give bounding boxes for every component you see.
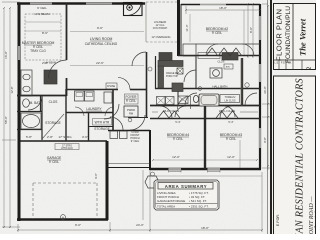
svg-text:LVG BEAM: LVG BEAM xyxy=(34,12,50,16)
svg-text:STORAGE: STORAGE xyxy=(94,127,110,131)
svg-text:12'-0": 12'-0" xyxy=(227,155,235,159)
svg-text:Louisiana: Louisiana xyxy=(315,201,317,229)
svg-text:18'-0": 18'-0" xyxy=(201,226,209,230)
svg-text:8'-8": 8'-8" xyxy=(263,137,267,143)
svg-text:• 2351 SQ. FT.: • 2351 SQ. FT. xyxy=(189,205,209,209)
svg-text:12'-8": 12'-8" xyxy=(10,86,14,93)
svg-text:LIN CLOS: LIN CLOS xyxy=(225,100,236,103)
svg-text:58'-0": 58'-0" xyxy=(4,116,8,124)
svg-text:FLOOR PLAN: FLOOR PLAN xyxy=(275,9,284,61)
svg-text:BI/LI: BI/LI xyxy=(226,67,231,69)
svg-text:17' STRG: 17' STRG xyxy=(58,135,72,139)
svg-text:16'-0": 16'-0" xyxy=(4,51,8,59)
svg-text:HALL BATH: HALL BATH xyxy=(213,85,228,89)
svg-text:2'-8": 2'-8" xyxy=(47,135,53,139)
svg-text:TOTAL AREA: TOTAL AREA xyxy=(157,205,175,209)
svg-text:E FOR:: E FOR: xyxy=(276,214,280,226)
svg-text:9' CEIL: 9' CEIL xyxy=(131,139,140,143)
svg-text:COV PORCH: COV PORCH xyxy=(153,27,168,30)
svg-text:11'-6": 11'-6" xyxy=(185,24,189,31)
svg-text:12'-0": 12'-0" xyxy=(172,155,180,159)
svg-text:9' CEIL: 9' CEIL xyxy=(126,99,137,103)
svg-text:GARAGE/STORAGE: GARAGE/STORAGE xyxy=(157,199,185,203)
svg-text:5'-8": 5'-8" xyxy=(26,135,32,139)
svg-text:18'-0": 18'-0" xyxy=(219,6,227,10)
svg-text:9' CEIL: 9' CEIL xyxy=(173,137,184,141)
svg-text:L.S.: L.S. xyxy=(275,62,280,65)
svg-text:9' CEIL: 9' CEIL xyxy=(49,160,60,164)
svg-text:9' CEIL: 9' CEIL xyxy=(212,31,223,35)
svg-text:TRAY CLG: TRAY CLG xyxy=(30,49,46,53)
svg-text:8'-0": 8'-0" xyxy=(249,27,253,33)
svg-text:• 541 SQ. FT.: • 541 SQ. FT. xyxy=(189,199,207,203)
svg-text:CHASE: CHASE xyxy=(107,85,116,88)
svg-text:MAN RESIDENTIAL CONTRACTORS: MAN RESIDENTIAL CONTRACTORS xyxy=(295,78,306,234)
svg-text:F.G.: F.G. xyxy=(281,62,286,65)
svg-text:WTR HTR: WTR HTR xyxy=(95,121,110,125)
svg-text:FOUNDATION/PLU: FOUNDATION/PLU xyxy=(285,6,292,63)
svg-text:STORAGE: STORAGE xyxy=(45,121,61,125)
svg-text:AREA SUMMARY: AREA SUMMARY xyxy=(165,184,207,189)
svg-text:3'-6": 3'-6" xyxy=(82,135,88,139)
svg-text:5'-4": 5'-4" xyxy=(175,120,180,124)
svg-text:LAUNDRY: LAUNDRY xyxy=(86,107,102,111)
svg-text:9' CEIL: 9' CEIL xyxy=(226,137,237,141)
svg-text:CK: CK xyxy=(288,62,292,65)
svg-text:5'-4": 5'-4" xyxy=(228,120,233,124)
svg-text:RM: RM xyxy=(129,112,133,116)
svg-text:PORC TOP: PORC TOP xyxy=(166,76,178,78)
svg-text:LIVING ROOM: LIVING ROOM xyxy=(90,37,113,41)
svg-text:WLK-I CLOS: WLK-I CLOS xyxy=(163,109,179,113)
svg-text:8'-6": 8'-6" xyxy=(42,31,48,35)
svg-text:PWDR: PWDR xyxy=(127,108,135,112)
svg-text:22'-6": 22'-6" xyxy=(96,61,104,65)
svg-text:9'-0": 9'-0" xyxy=(75,223,81,227)
svg-text:ATTIC ACC: ATTIC ACC xyxy=(61,147,73,150)
svg-text:2'-6": 2'-6" xyxy=(42,61,48,65)
svg-text:A: A xyxy=(62,216,64,220)
svg-text:34'-0": 34'-0" xyxy=(263,86,267,94)
svg-text:CATHEDRAL CEILING: CATHEDRAL CEILING xyxy=(85,42,118,46)
svg-text:9'-6": 9'-6" xyxy=(97,26,103,30)
svg-text:CLOS: CLOS xyxy=(217,60,224,64)
svg-text:M. BATH: M. BATH xyxy=(30,101,43,105)
svg-text:9'-0": 9'-0" xyxy=(94,173,98,179)
svg-text:WLK-I CLOS: WLK-I CLOS xyxy=(219,109,235,113)
svg-text:12' OVERHANG: 12' OVERHANG xyxy=(152,35,171,39)
svg-text:24'-0": 24'-0" xyxy=(136,223,144,227)
svg-text:RANGE W/: RANGE W/ xyxy=(166,72,178,75)
svg-text:The Verret: The Verret xyxy=(298,18,308,56)
svg-text:CLOS: CLOS xyxy=(49,100,58,104)
svg-text:9' CEIL: 9' CEIL xyxy=(37,6,47,10)
